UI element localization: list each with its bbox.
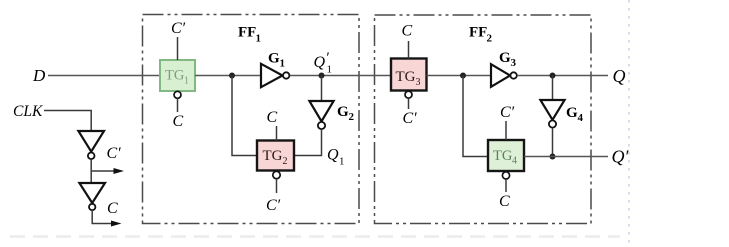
svg-text:C: C	[173, 113, 184, 130]
label C' below TG3	[403, 110, 418, 127]
wire C' branch with arrow	[91, 168, 124, 174]
wire feedback down-left to TG2	[232, 76, 257, 156]
wire CLK to inverter 1	[44, 111, 91, 132]
wire Q1' down to G2	[321, 76, 323, 102]
junction node feedback tap FF1	[229, 73, 235, 79]
svg-text:TG: TG	[396, 69, 416, 85]
bubble on TG1 bottom pin	[174, 91, 181, 98]
transmission gate TG3	[391, 59, 427, 91]
junction node Q1'	[319, 73, 325, 79]
svg-text:3: 3	[416, 77, 421, 88]
node Q' output label	[612, 147, 630, 167]
svg-text:C′: C′	[500, 104, 515, 121]
junction node on Q' rail	[550, 154, 556, 160]
bubble on TG3 bottom pin	[405, 91, 412, 98]
wire TG2 bottom stub to C'	[276, 179, 278, 193]
wire C output down and right with arrow	[92, 210, 121, 226]
transmission gate TG1	[160, 60, 195, 91]
svg-text:Q: Q	[613, 66, 626, 86]
inverter G1	[261, 64, 289, 87]
label C above TG2	[267, 109, 278, 126]
wire C stub to TG2 top	[276, 126, 278, 141]
junction node G4 tap	[550, 73, 556, 79]
FF1 dashed enclosure box	[143, 15, 360, 224]
svg-text:2: 2	[283, 156, 288, 167]
label C above TG3	[402, 23, 413, 40]
svg-text:FF: FF	[238, 25, 256, 41]
label G1	[268, 51, 285, 70]
label C below TG4	[499, 193, 510, 210]
label Q1	[327, 147, 345, 168]
svg-text:G: G	[337, 104, 349, 120]
wire TG1 to G1	[195, 75, 261, 77]
wire TG4 to Q' output	[524, 156, 608, 158]
svg-text:TG: TG	[493, 148, 513, 164]
wire TG3 bottom stub to C'	[408, 98, 410, 109]
inverter G2 (pointing down)	[309, 101, 333, 129]
node CLK input label	[13, 103, 43, 120]
svg-text:2: 2	[349, 111, 355, 123]
svg-text:C′: C′	[171, 20, 186, 37]
clock inverter 2 (pointing down)	[79, 183, 105, 210]
wire TG4 bottom stub to C	[505, 179, 507, 192]
label C' below TG2	[266, 197, 281, 214]
FF2 dashed enclosure box	[375, 15, 592, 224]
svg-text:1: 1	[339, 156, 345, 168]
wire TG1 bottom stub to C	[177, 99, 179, 113]
svg-text:TG: TG	[165, 68, 185, 84]
label C' at inverter 1 output	[107, 145, 122, 162]
svg-text:D: D	[32, 66, 46, 85]
label FF1	[238, 25, 261, 45]
svg-text:4: 4	[512, 156, 517, 167]
svg-text:1: 1	[280, 58, 286, 70]
svg-text:TG: TG	[263, 148, 283, 164]
svg-text:G: G	[499, 50, 511, 66]
label G2	[337, 104, 355, 123]
svg-text:CLK: CLK	[13, 103, 43, 120]
label G3	[499, 50, 517, 69]
label Q1'	[314, 50, 333, 76]
svg-text:C′: C′	[403, 110, 418, 127]
svg-text:1: 1	[256, 33, 262, 45]
node D input label	[32, 66, 46, 85]
wire down to G4	[552, 76, 554, 101]
svg-text:C: C	[402, 23, 413, 40]
bubble on TG4 bottom pin	[502, 172, 509, 179]
svg-text:FF: FF	[469, 25, 487, 41]
bubble on TG2 bottom pin	[273, 171, 280, 178]
wire D to TG1	[48, 75, 160, 77]
page margin blue dotted rule	[628, 0, 630, 247]
wire C' stub to TG1 top	[177, 37, 179, 60]
svg-text:Q: Q	[314, 54, 326, 71]
wire G1 output to TG3	[290, 75, 391, 77]
label C' above TG1	[171, 20, 186, 37]
wire feedback down-left to TG4	[463, 76, 488, 157]
wire G4 output down to Q' rail	[552, 128, 554, 157]
svg-text:Q: Q	[327, 147, 339, 164]
svg-text:3: 3	[511, 57, 517, 69]
svg-text:C: C	[499, 193, 510, 210]
svg-text:1: 1	[327, 64, 333, 76]
svg-text:C: C	[267, 109, 278, 126]
svg-text:G: G	[566, 105, 578, 121]
junction node feedback tap FF2	[460, 73, 466, 79]
svg-text:C: C	[107, 200, 118, 217]
svg-text:G: G	[268, 51, 280, 67]
wire G2 output down to Q1 corner	[294, 129, 322, 155]
label C below TG1	[173, 113, 184, 130]
svg-text:4: 4	[578, 112, 584, 124]
label FF2	[469, 25, 493, 45]
inverter G4 (pointing down)	[540, 100, 564, 128]
svg-text:Q′: Q′	[612, 147, 630, 167]
wire TG3 to G3	[427, 75, 492, 77]
inverter G3	[491, 64, 517, 87]
label G4	[566, 105, 584, 124]
svg-text:C′: C′	[266, 197, 281, 214]
svg-text:2: 2	[487, 33, 493, 45]
clock inverter 1 (pointing down)	[78, 131, 104, 159]
node Q output label	[613, 66, 626, 86]
wire G3 output to Q	[517, 75, 608, 77]
svg-text:C′: C′	[107, 145, 122, 162]
transmission gate TG2	[257, 141, 294, 171]
wire inverter 1 output down to inverter 2	[90, 159, 92, 183]
label C at inverter 2 output	[107, 200, 118, 217]
faint cropped text artifact row	[10, 235, 620, 238]
wire C' stub to TG4 top	[505, 121, 507, 140]
label C' above TG4	[500, 104, 515, 121]
wire C stub to TG3 top	[408, 41, 410, 59]
svg-text:1: 1	[184, 76, 189, 87]
transmission gate TG4	[488, 140, 524, 171]
